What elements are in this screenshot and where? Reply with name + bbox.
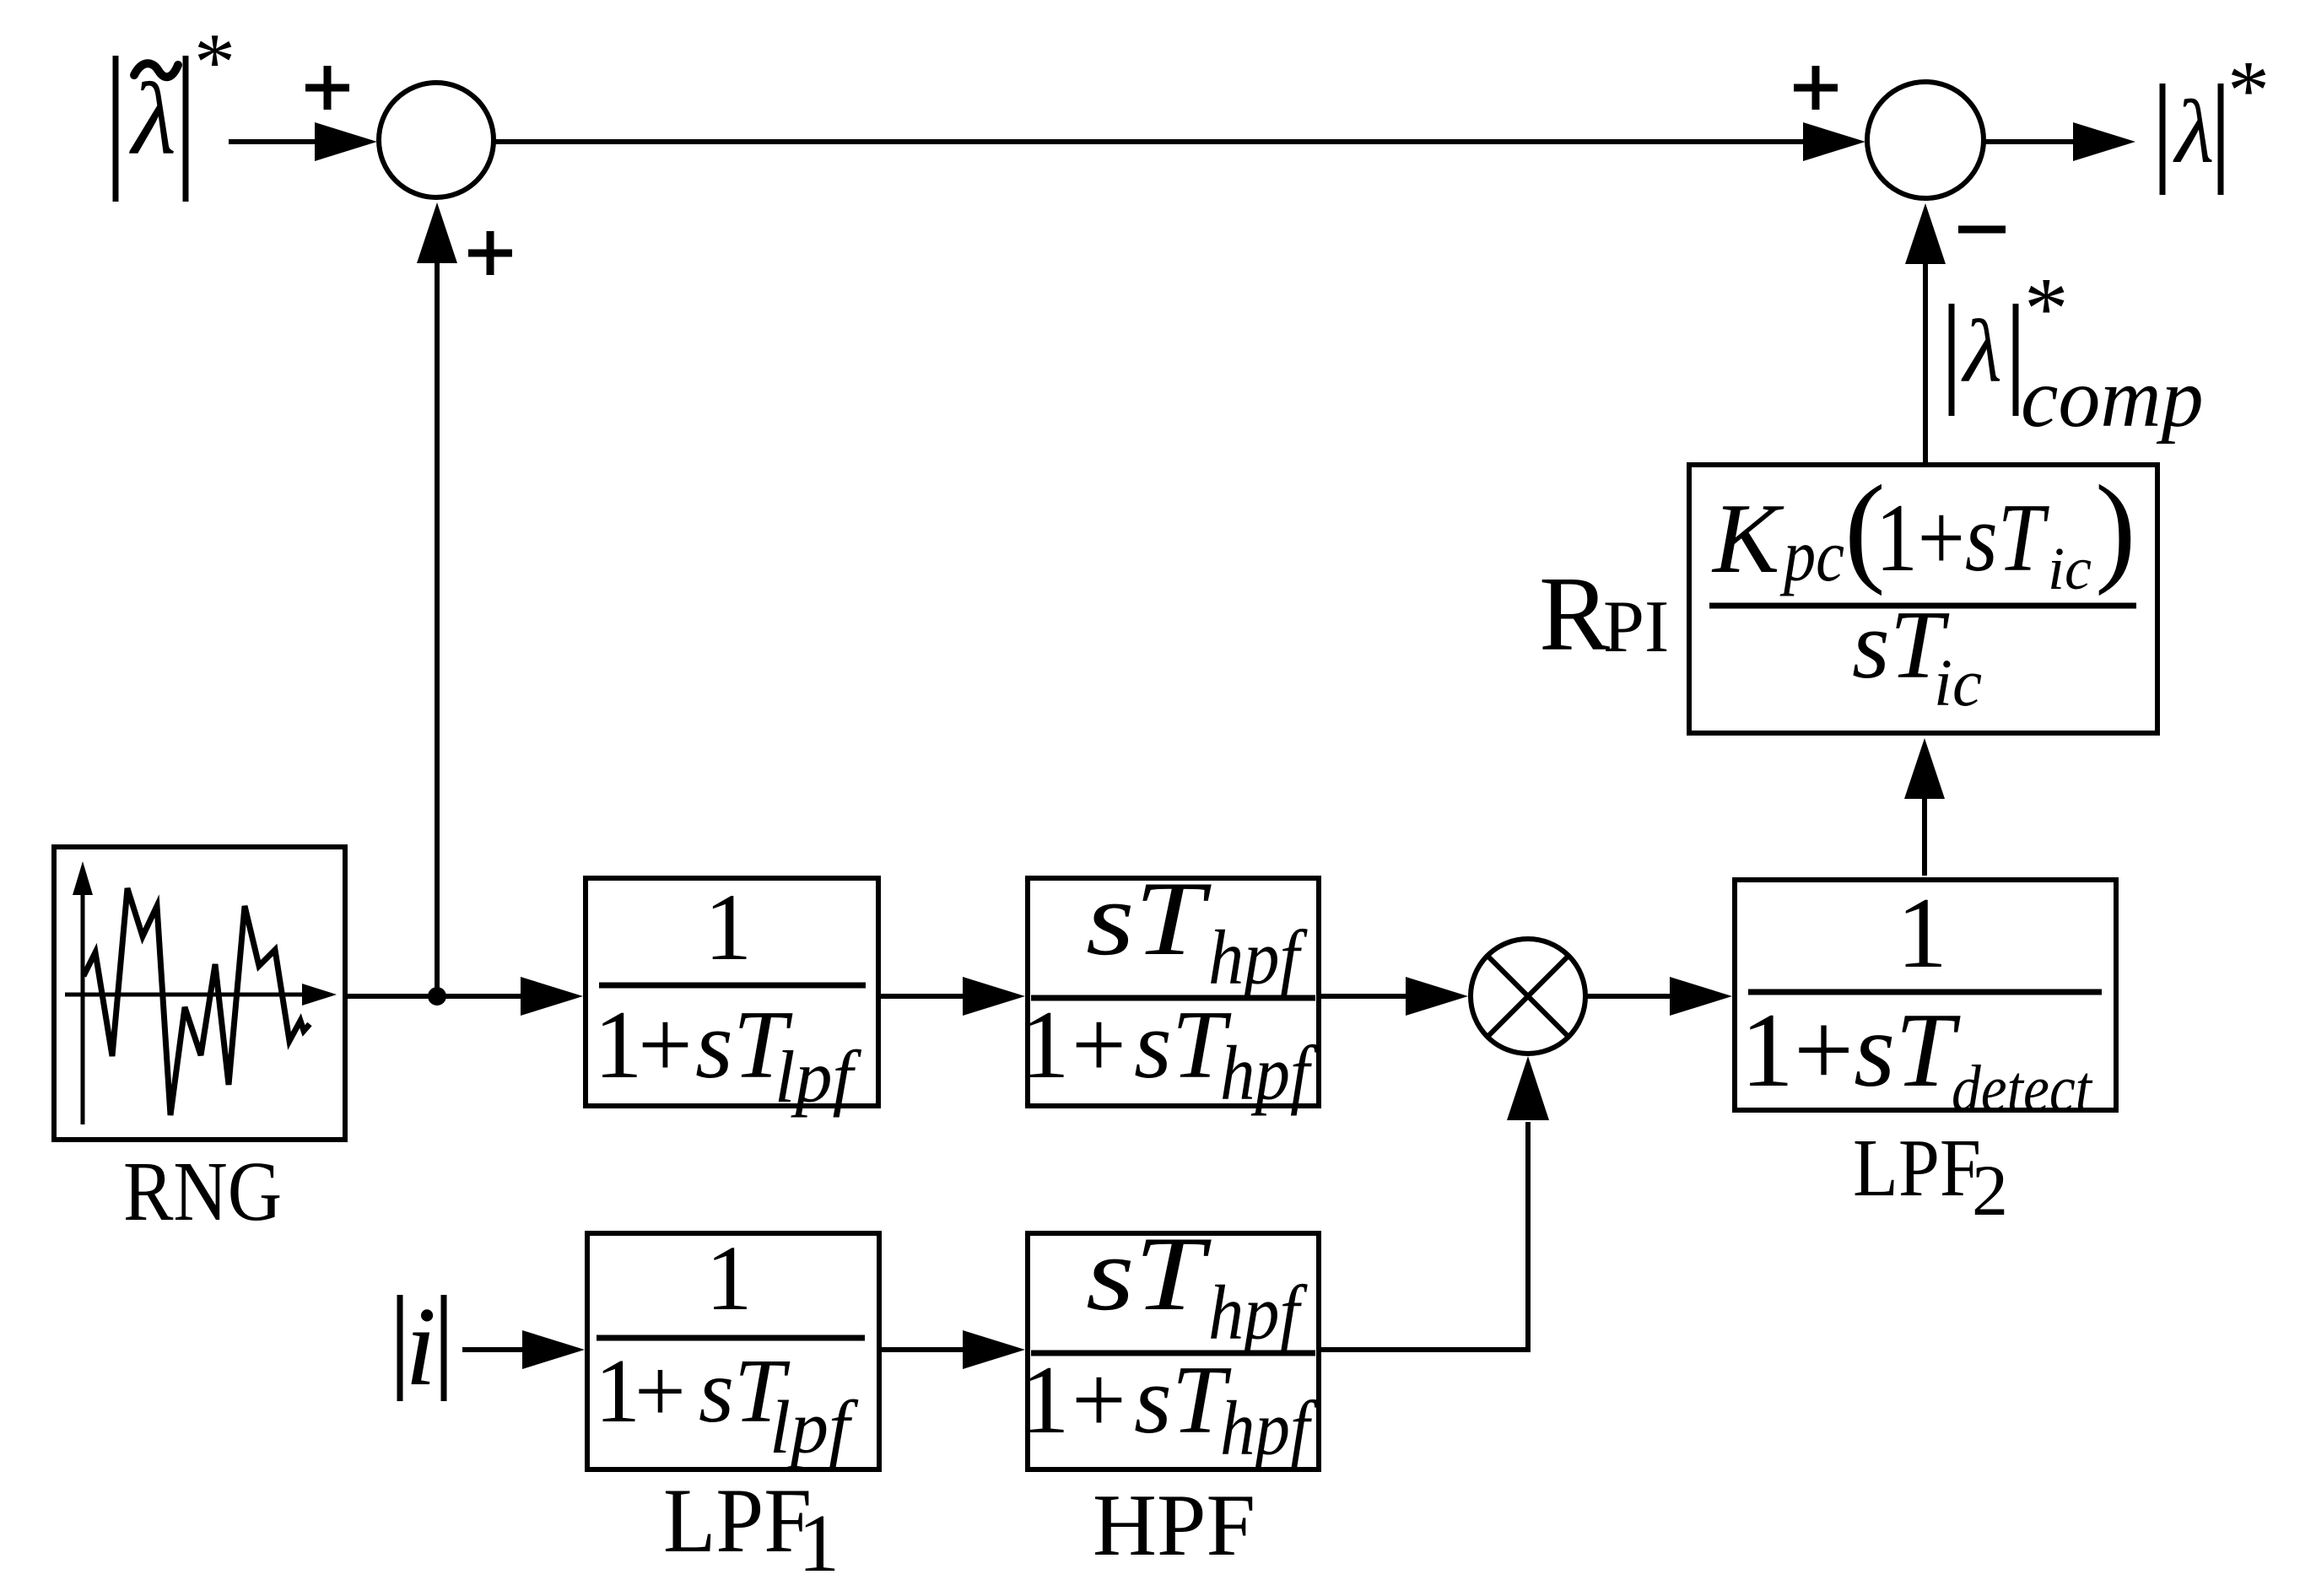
node output label |lambda|* <box>2162 43 2270 195</box>
svg-text:sT: sT <box>1086 1216 1212 1333</box>
svg-text:sT: sT <box>1134 1346 1232 1453</box>
wire input to summing junction S1 <box>229 122 377 161</box>
svg-text:sT: sT <box>1086 860 1212 978</box>
wire S2 to output <box>1984 122 2135 161</box>
svg-text:1: 1 <box>706 1227 753 1329</box>
svg-text:1: 1 <box>1021 991 1070 1098</box>
svg-text:comp: comp <box>2021 351 2204 445</box>
svg-text:lpf: lpf <box>775 1037 861 1119</box>
svg-text:1: 1 <box>705 875 753 980</box>
block HPF upper (sThpf/(1+sThpf)) <box>1021 860 1319 1116</box>
svg-text:LPF: LPF <box>663 1469 812 1572</box>
svg-text:RNG: RNG <box>123 1144 282 1238</box>
block HPF lower <box>1021 1216 1319 1471</box>
svg-text:1: 1 <box>1021 1346 1070 1453</box>
svg-text:*: * <box>2024 259 2069 358</box>
svg-text:λ: λ <box>1961 302 2002 401</box>
svg-text:hpf: hpf <box>1220 1030 1318 1116</box>
wire LPF2 up to RPI <box>1904 738 1945 876</box>
label LPF2 <box>1853 1123 2008 1231</box>
junction node on RNG output <box>428 987 446 1006</box>
svg-text:i: i <box>405 1284 436 1409</box>
svg-text:1+sT: 1+sT <box>1876 484 2049 591</box>
block RNG <box>54 847 345 1140</box>
plus sign at S2 left input <box>1794 66 1838 110</box>
block LPF1 <box>587 1227 879 1469</box>
svg-text:1: 1 <box>1897 876 1947 989</box>
svg-text:*: * <box>2227 43 2270 137</box>
wire multiplier to LPF2 <box>1585 977 1732 1016</box>
minus sign at S2 bottom input <box>1958 226 2006 234</box>
summing junction S1 <box>379 83 494 197</box>
svg-text:pc: pc <box>1779 515 1844 597</box>
svg-text:ic: ic <box>2048 535 2092 602</box>
svg-text:LPF: LPF <box>1853 1123 1981 1213</box>
svg-text:*: * <box>194 17 235 108</box>
svg-text:1+sT: 1+sT <box>1741 992 1961 1109</box>
svg-text:hpf: hpf <box>1220 1385 1318 1471</box>
svg-text:lpf: lpf <box>769 1386 859 1469</box>
label RPI <box>1539 556 1669 673</box>
block LPF2 <box>1735 876 2116 1126</box>
svg-text:R: R <box>1539 556 1610 673</box>
svg-text:2: 2 <box>1972 1150 2008 1231</box>
svg-text:hpf: hpf <box>1208 914 1309 1000</box>
svg-text:λ: λ <box>2173 83 2214 182</box>
svg-text:K: K <box>1711 483 1784 594</box>
svg-text:ic: ic <box>1934 647 1982 720</box>
svg-text:hpf: hpf <box>1208 1270 1309 1356</box>
wire HPF lower to multiplier (corner) <box>1321 1056 1549 1350</box>
svg-text:detect: detect <box>1952 1053 2093 1126</box>
wire i to LPF1 <box>462 1330 585 1369</box>
wire block A to block B <box>881 977 1025 1016</box>
summing junction S2 <box>1867 82 1984 198</box>
plus sign at S1 left input <box>305 66 349 110</box>
wire block B to multiplier <box>1321 977 1468 1016</box>
label LPF1 <box>663 1469 840 1589</box>
svg-text:+: + <box>1072 1346 1126 1453</box>
svg-text:): ) <box>2095 460 2136 596</box>
node label |lambda|*comp <box>1952 259 2204 445</box>
wire S1 to S2 <box>494 122 1865 161</box>
wire RNG to LPF block A <box>348 977 583 1016</box>
wire LPF1 to HPF lower <box>882 1330 1025 1369</box>
node lambda-tilde reference input label |~lambda|* <box>116 17 235 202</box>
svg-text:PI: PI <box>1603 586 1669 668</box>
multiplier M1 <box>1471 939 1585 1054</box>
svg-text:+: + <box>634 1341 686 1442</box>
svg-text:+: + <box>1072 991 1126 1098</box>
block RPI (PI compensator) <box>1689 460 2157 733</box>
node current magnitude label |i| <box>400 1284 444 1409</box>
plus sign at S1 bottom input <box>468 231 512 275</box>
svg-text:1: 1 <box>595 1341 640 1442</box>
block LPF upper (1/(1+sTlpf)) <box>586 875 878 1119</box>
svg-text:HPF: HPF <box>1093 1475 1255 1574</box>
svg-text:1: 1 <box>594 991 643 1098</box>
wire junction dot up to S1 <box>417 202 457 996</box>
svg-text:+: + <box>638 991 693 1098</box>
svg-text:sT: sT <box>1134 991 1232 1098</box>
wire RPI output up to S2 <box>1905 203 1946 462</box>
svg-text:1: 1 <box>798 1498 840 1589</box>
